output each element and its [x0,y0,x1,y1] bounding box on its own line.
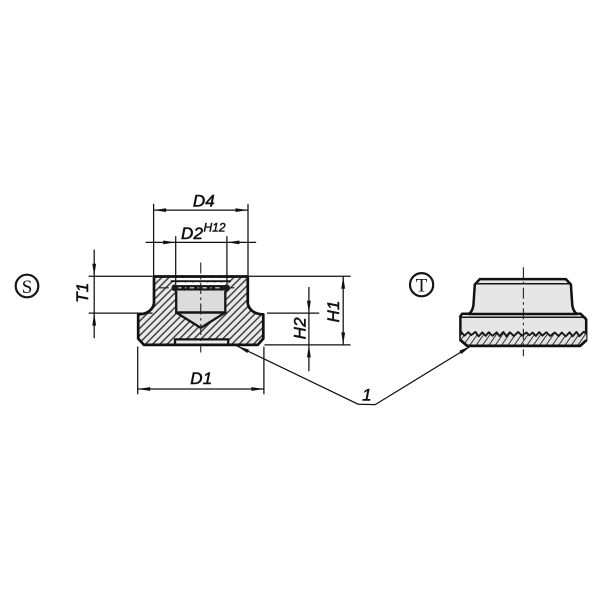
spring ring groove band [176,285,227,290]
svg-text:S: S [22,277,33,298]
svg-text:H1: H1 [324,300,343,322]
svg-text:D2: D2 [181,224,203,243]
view S symbol circle [16,275,39,298]
svg-text:T: T [416,276,428,297]
base chamfer edge line [461,316,586,318]
svg-text:T1: T1 [73,283,92,303]
collar chamfer edge line [476,283,570,285]
groove horizontal centerline [159,287,235,289]
bottom relief notch [175,339,228,344]
knurl band with hatch [461,332,587,346]
dimension D4 [154,204,248,276]
dimension T1 [89,250,153,339]
svg-text:H2: H2 [290,317,309,339]
vertical centerline right view [522,267,524,356]
dimension D1 [138,347,264,395]
side view collar [469,279,578,314]
svg-text:H12: H12 [204,221,226,235]
section outline stroke [138,277,263,345]
drill cone bottom [175,313,227,328]
spring wire section left circle [172,284,179,291]
counterbore mouth [171,278,232,285]
side view base (right view) [460,314,586,346]
dimension H2 [267,287,319,371]
bore cavity [176,291,225,313]
dimension D2 H12 [146,236,257,284]
svg-text:D4: D4 [193,191,215,210]
svg-text:1: 1 [362,386,372,405]
leader line for item 1 [237,346,471,405]
svg-text:D1: D1 [190,369,212,388]
view T symbol circle [410,273,433,297]
dimension H1 [249,276,351,345]
spring wire section right circle [223,284,230,291]
section view body (left view) [138,277,263,345]
vertical centerline left view [200,263,202,353]
